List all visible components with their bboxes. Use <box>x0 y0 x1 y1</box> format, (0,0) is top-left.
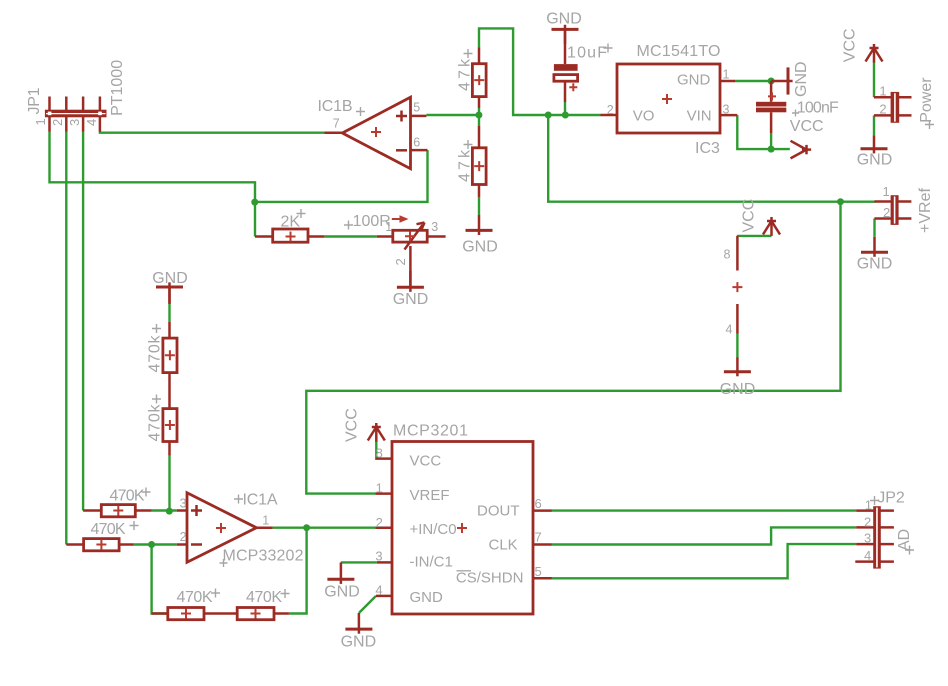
svg-text:1: 1 <box>879 84 886 99</box>
svg-text:MC1541TO: MC1541TO <box>637 43 721 60</box>
svg-text:AD: AD <box>896 529 913 551</box>
svg-text:IC1A: IC1A <box>243 492 278 509</box>
svg-text:3: 3 <box>375 549 382 564</box>
svg-text:2: 2 <box>883 205 890 220</box>
svg-text:IC3: IC3 <box>695 140 720 157</box>
svg-text:CLK: CLK <box>489 537 518 554</box>
svg-text:1: 1 <box>376 481 383 496</box>
svg-text:VCC: VCC <box>790 118 824 135</box>
svg-text:MCP3201: MCP3201 <box>393 423 468 440</box>
svg-text:VCC: VCC <box>741 199 758 233</box>
svg-text:GND: GND <box>720 381 756 398</box>
svg-text:GND: GND <box>546 10 582 27</box>
svg-text:470k: 470k <box>147 404 164 442</box>
svg-text:DOUT: DOUT <box>477 503 520 520</box>
svg-text:10uF: 10uF <box>567 45 607 62</box>
svg-text:GND: GND <box>410 589 444 606</box>
svg-text:PT1000: PT1000 <box>109 60 126 116</box>
svg-text:470k: 470k <box>147 335 164 373</box>
svg-text:VCC: VCC <box>410 453 442 470</box>
svg-text:6: 6 <box>535 496 542 511</box>
svg-text:2: 2 <box>393 258 408 265</box>
svg-text:5: 5 <box>535 564 542 579</box>
svg-text:JP1: JP1 <box>26 87 43 114</box>
svg-text:VREF: VREF <box>410 487 450 504</box>
svg-text:2: 2 <box>180 530 187 544</box>
svg-text:8: 8 <box>724 248 731 262</box>
svg-text:2: 2 <box>50 119 65 126</box>
svg-text:1: 1 <box>883 184 890 199</box>
svg-text:JP2: JP2 <box>877 490 905 507</box>
svg-text:GND: GND <box>793 61 810 97</box>
svg-text:3: 3 <box>864 531 871 546</box>
svg-text:2: 2 <box>607 103 614 117</box>
svg-text:IC1B: IC1B <box>318 98 353 115</box>
svg-text:47k: 47k <box>457 58 474 91</box>
svg-text:47k: 47k <box>457 149 474 182</box>
svg-text:Power: Power <box>918 77 935 123</box>
svg-text:VCC: VCC <box>842 28 859 62</box>
svg-text:GND: GND <box>857 256 893 273</box>
svg-text:3: 3 <box>723 103 730 117</box>
svg-text:2: 2 <box>864 515 871 530</box>
svg-text:470K: 470K <box>177 589 213 606</box>
svg-text:VCC: VCC <box>344 408 361 442</box>
svg-text:GND: GND <box>324 584 360 601</box>
svg-text:+VRef: +VRef <box>917 188 934 233</box>
svg-text:GND: GND <box>857 152 893 169</box>
svg-text:7: 7 <box>535 530 542 545</box>
svg-text:2: 2 <box>376 515 383 530</box>
svg-text:1: 1 <box>865 498 872 513</box>
svg-text:MCP33202: MCP33202 <box>223 548 304 565</box>
svg-text:GND: GND <box>677 72 711 89</box>
svg-text:VO: VO <box>633 108 655 125</box>
svg-text:470K: 470K <box>91 521 126 538</box>
svg-text:7: 7 <box>333 117 340 131</box>
svg-text:1: 1 <box>723 68 730 82</box>
svg-text:470K: 470K <box>246 589 282 606</box>
svg-text:6: 6 <box>413 135 420 149</box>
svg-text:3: 3 <box>180 497 187 511</box>
svg-text:VIN: VIN <box>687 108 712 125</box>
svg-text:1: 1 <box>262 514 269 528</box>
svg-text:100nF: 100nF <box>797 99 839 116</box>
svg-text:4: 4 <box>864 548 871 563</box>
svg-text:4: 4 <box>84 119 99 126</box>
svg-text:CS/SHDN: CS/SHDN <box>456 570 524 587</box>
svg-text:-IN/C1: -IN/C1 <box>410 554 453 571</box>
svg-text:5: 5 <box>413 101 420 115</box>
svg-text:GND: GND <box>341 634 377 651</box>
svg-text:2K: 2K <box>281 213 301 230</box>
svg-text:GND: GND <box>393 291 429 308</box>
svg-text:2: 2 <box>879 102 886 117</box>
svg-text:470K: 470K <box>110 488 145 505</box>
svg-text:GND: GND <box>462 239 498 256</box>
svg-text:3: 3 <box>67 119 82 126</box>
svg-text:1: 1 <box>33 118 48 125</box>
svg-text:4: 4 <box>726 323 733 337</box>
svg-text:3: 3 <box>431 220 438 234</box>
svg-text:1: 1 <box>385 220 392 234</box>
svg-text:8: 8 <box>376 446 383 461</box>
svg-text:4: 4 <box>375 583 382 598</box>
svg-text:+IN/C0: +IN/C0 <box>410 521 457 538</box>
svg-text:GND: GND <box>152 270 188 287</box>
